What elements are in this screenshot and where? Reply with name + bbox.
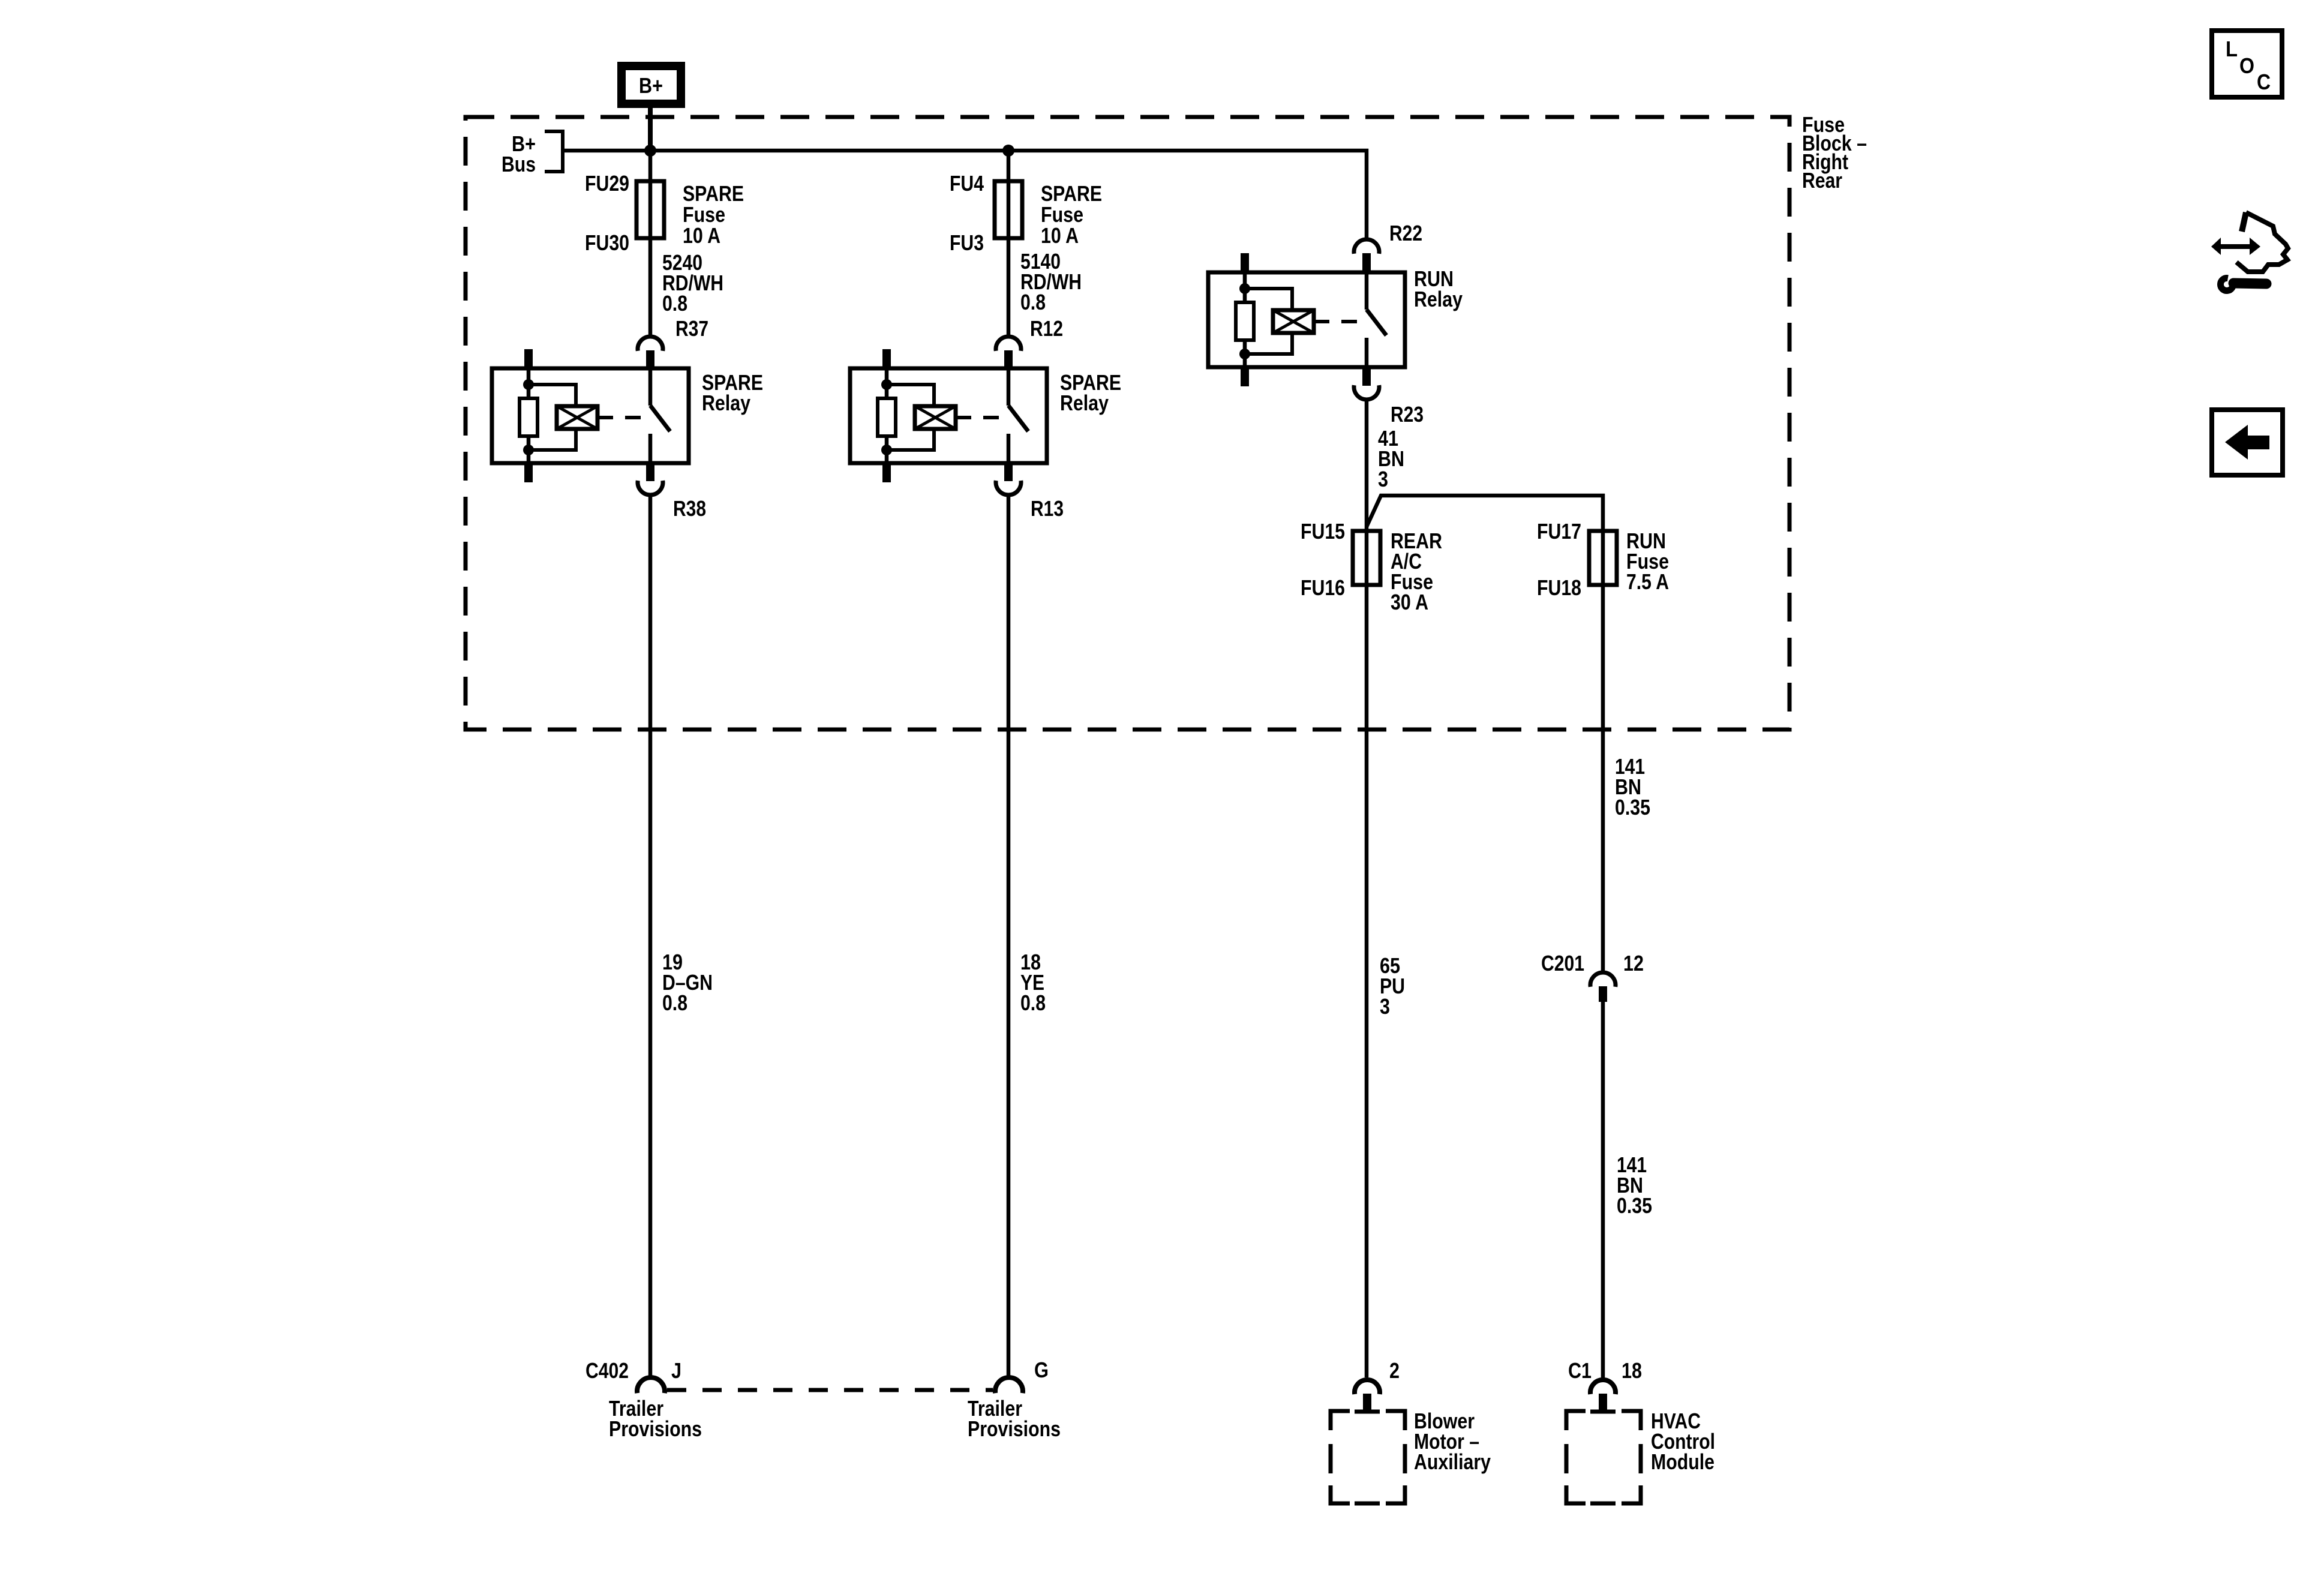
svg-text:0.8: 0.8	[1020, 990, 1046, 1015]
svg-text:12: 12	[1623, 951, 1644, 975]
connector C402 pin J	[637, 1377, 665, 1393]
RUN relay K3 coil	[1273, 310, 1314, 333]
svg-text:0.8: 0.8	[662, 990, 687, 1015]
connector R22 female	[1354, 239, 1379, 254]
svg-text:Rear: Rear	[1802, 168, 1842, 193]
svg-text:FU15: FU15	[1301, 519, 1345, 544]
svg-text:Module: Module	[1651, 1449, 1715, 1474]
component locator icon panel outline	[2242, 212, 2246, 232]
component locator icon double arrow	[2211, 238, 2221, 255]
svg-text:R38: R38	[673, 496, 706, 521]
svg-text:30 A: 30 A	[1391, 590, 1428, 614]
fuse block dashed border	[466, 117, 1789, 730]
connector C402 pin G	[995, 1377, 1023, 1393]
component locator icon wrench	[2220, 278, 2233, 291]
wire bus to fuse FU29	[648, 151, 653, 335]
RUN relay K3 coil connect wires	[1245, 289, 1292, 310]
SPARE relay K2 coil branch wire	[885, 368, 889, 398]
SPARE relay K1 coil branch wire	[527, 368, 531, 398]
junction dot node FU4 branch	[1002, 145, 1014, 157]
wire FU16 to blower motor	[1365, 585, 1369, 1377]
svg-text:FU16: FU16	[1301, 575, 1345, 600]
svg-text:0.35: 0.35	[1615, 795, 1650, 819]
connector R13 male pin	[1004, 463, 1013, 481]
wire bus to fuse FU4	[1007, 151, 1011, 335]
svg-text:C1: C1	[1568, 1358, 1592, 1383]
wire R13 to C402-G	[1007, 496, 1011, 1377]
RUN relay K3 switch	[1365, 272, 1369, 310]
SPARE relay K1 resistor	[520, 398, 538, 436]
SPARE relay K1 coil	[557, 406, 597, 429]
RUN relay K3 resistor	[1236, 302, 1254, 340]
wire C201 to HVAC	[1601, 1002, 1605, 1378]
svg-text:R37: R37	[675, 316, 708, 341]
RUN relay K3 box	[1208, 272, 1405, 367]
svg-text:R12: R12	[1030, 316, 1063, 341]
svg-text:10 A: 10 A	[1041, 223, 1079, 248]
svg-text:FU4: FU4	[950, 171, 984, 196]
svg-text:R13: R13	[1031, 496, 1064, 521]
svg-text:J: J	[671, 1358, 681, 1383]
svg-text:Provisions: Provisions	[609, 1416, 702, 1441]
B+ bus wire	[563, 151, 1367, 239]
svg-text:Relay: Relay	[702, 391, 750, 415]
wire FU18 to C201	[1601, 531, 1605, 971]
svg-text:C: C	[2257, 70, 2271, 94]
SPARE relay K1 junction dots	[523, 379, 534, 390]
svg-text:C201: C201	[1541, 951, 1584, 975]
wire R38 to C402	[648, 496, 653, 1377]
SPARE relay K2 box	[850, 368, 1047, 463]
svg-text:B+: B+	[639, 73, 663, 98]
RUN relay K3 coil pin stubs	[1241, 253, 1249, 272]
SPARE relay K1 coil pin stubs	[524, 349, 533, 368]
svg-text:0.8: 0.8	[662, 291, 687, 316]
connector blower pin 2 female	[1355, 1380, 1380, 1394]
blower motor pin bar	[1355, 1410, 1380, 1414]
SPARE relay K1 coil connect wires	[529, 385, 576, 406]
SPARE relay K2 coil connect wires	[887, 385, 934, 406]
wire R23 to FU15	[1365, 401, 1369, 585]
svg-text:Auxiliary: Auxiliary	[1414, 1449, 1491, 1474]
LOC reference box icon	[2212, 31, 2282, 97]
svg-text:3: 3	[1378, 467, 1388, 491]
back arrow box icon	[2212, 410, 2283, 475]
svg-text:3: 3	[1380, 994, 1390, 1019]
svg-text:FU29: FU29	[585, 171, 629, 196]
svg-text:7.5 A: 7.5 A	[1626, 569, 1669, 594]
connector C201 female	[1590, 972, 1616, 987]
SPARE relay K2 resistor	[878, 398, 896, 436]
svg-text:FU17: FU17	[1537, 519, 1581, 544]
connector R23 female	[1354, 385, 1379, 400]
SPARE relay K1 box	[492, 368, 689, 463]
fuse FU17/FU18 RUN Fuse 7.5A	[1589, 531, 1617, 585]
svg-text:Relay: Relay	[1414, 287, 1463, 311]
SPARE relay K2 coil	[915, 406, 956, 429]
svg-text:10 A: 10 A	[683, 223, 720, 248]
connector R22 male pin	[1362, 253, 1371, 272]
svg-text:L: L	[2226, 37, 2238, 61]
svg-text:R23: R23	[1391, 402, 1424, 427]
connector R38 male pin	[646, 463, 654, 481]
connector R37 male pin	[646, 350, 654, 368]
SPARE relay K2 coil pin stubs	[882, 349, 891, 368]
SPARE relay K1 actuator dashed link	[597, 416, 647, 419]
B+ power terminal box	[621, 66, 681, 104]
svg-text:C402: C402	[585, 1358, 629, 1383]
RUN relay K3 coil branch wire	[1243, 272, 1247, 302]
connector C201 male pin	[1599, 986, 1607, 1002]
svg-text:0.8: 0.8	[1020, 290, 1046, 314]
connector R37 female	[638, 337, 663, 351]
svg-text:FU3: FU3	[950, 230, 984, 255]
Blower Motor - Auxiliary dashed box	[1331, 1411, 1405, 1503]
RUN relay K3 junction dots	[1239, 283, 1250, 294]
HVAC pin bar	[1590, 1410, 1616, 1414]
connector C1 male pin	[1599, 1394, 1607, 1412]
junction dot node FU29 branch	[644, 145, 656, 157]
RUN relay K3 actuator dashed link	[1314, 320, 1364, 323]
C402 connector dashed link	[667, 1388, 993, 1392]
svg-text:2: 2	[1389, 1358, 1400, 1383]
svg-text:G: G	[1034, 1358, 1049, 1382]
svg-text:18: 18	[1622, 1358, 1642, 1383]
connector R12 female	[996, 337, 1021, 351]
SPARE relay K1 switch	[648, 368, 653, 406]
SPARE relay K2 switch	[1007, 368, 1011, 406]
fuse FU15/FU16 REAR A/C Fuse 30A	[1353, 531, 1380, 585]
connector blower pin 2 male pin	[1363, 1394, 1371, 1412]
svg-text:Bus: Bus	[502, 152, 536, 176]
svg-text:R22: R22	[1389, 221, 1422, 245]
HVAC Control Module dashed box	[1566, 1411, 1641, 1503]
fuse FU29/FU30 SPARE Fuse 10A	[636, 181, 664, 238]
back arrow	[2225, 425, 2248, 460]
wire B+ terminal to bus	[648, 108, 653, 151]
connector C1 pin 18 female	[1590, 1380, 1616, 1394]
svg-text:O: O	[2239, 53, 2254, 78]
SPARE relay K2 actuator dashed link	[956, 416, 1005, 419]
B+ Bus bracket	[545, 131, 563, 172]
wire branch to FU17	[1367, 496, 1603, 531]
connector R23 male pin	[1362, 367, 1371, 386]
fuse FU4/FU3 SPARE Fuse 10A	[995, 181, 1022, 238]
connector R13 female	[996, 481, 1021, 495]
connector R38 female	[638, 481, 663, 495]
svg-text:Relay: Relay	[1060, 391, 1109, 415]
svg-text:FU18: FU18	[1537, 575, 1581, 600]
svg-text:Provisions: Provisions	[968, 1416, 1061, 1441]
SPARE relay K2 junction dots	[881, 379, 892, 390]
svg-text:FU30: FU30	[585, 230, 629, 255]
svg-text:0.35: 0.35	[1617, 1193, 1652, 1218]
connector R12 male pin	[1004, 350, 1013, 368]
